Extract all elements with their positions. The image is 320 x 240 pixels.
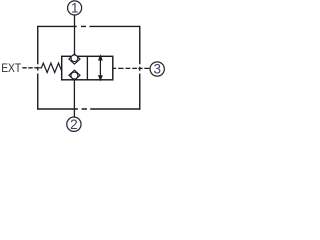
svg-text:EXT: EXT [1, 62, 21, 75]
node 3 (port circle) [150, 62, 164, 76]
wire: EXT pilot line (dashed) [22, 67, 39, 69]
enclosure right edge [139, 26, 141, 110]
wire: port 2 line (check valve to node 2) [73, 80, 75, 117]
check valve CV2 (lower, diamond with ball) [69, 70, 80, 80]
check valve CV1 (upper, diamond with ball) [69, 54, 80, 64]
node 2 (port circle) [67, 117, 81, 131]
svg-text:3: 3 [153, 62, 161, 77]
wire: port 1 line (node 1 to check valve) [74, 15, 76, 54]
enclosure bottom edge [38, 108, 140, 110]
enclosure left edge [37, 26, 39, 110]
svg-text:2: 2 [70, 117, 78, 132]
wire: port 3 pilot line (dashed, valve to node 3) [113, 67, 149, 69]
spring (left of valve) [39, 63, 62, 72]
enclosure (component boundary, long-dash box) top edge [38, 25, 140, 27]
valve position divider [86, 56, 88, 80]
svg-text:1: 1 [71, 1, 79, 16]
valve body envelope [62, 56, 113, 80]
node 1 (port circle) [68, 1, 82, 15]
flow arrow (double-headed, right position) [98, 54, 103, 81]
